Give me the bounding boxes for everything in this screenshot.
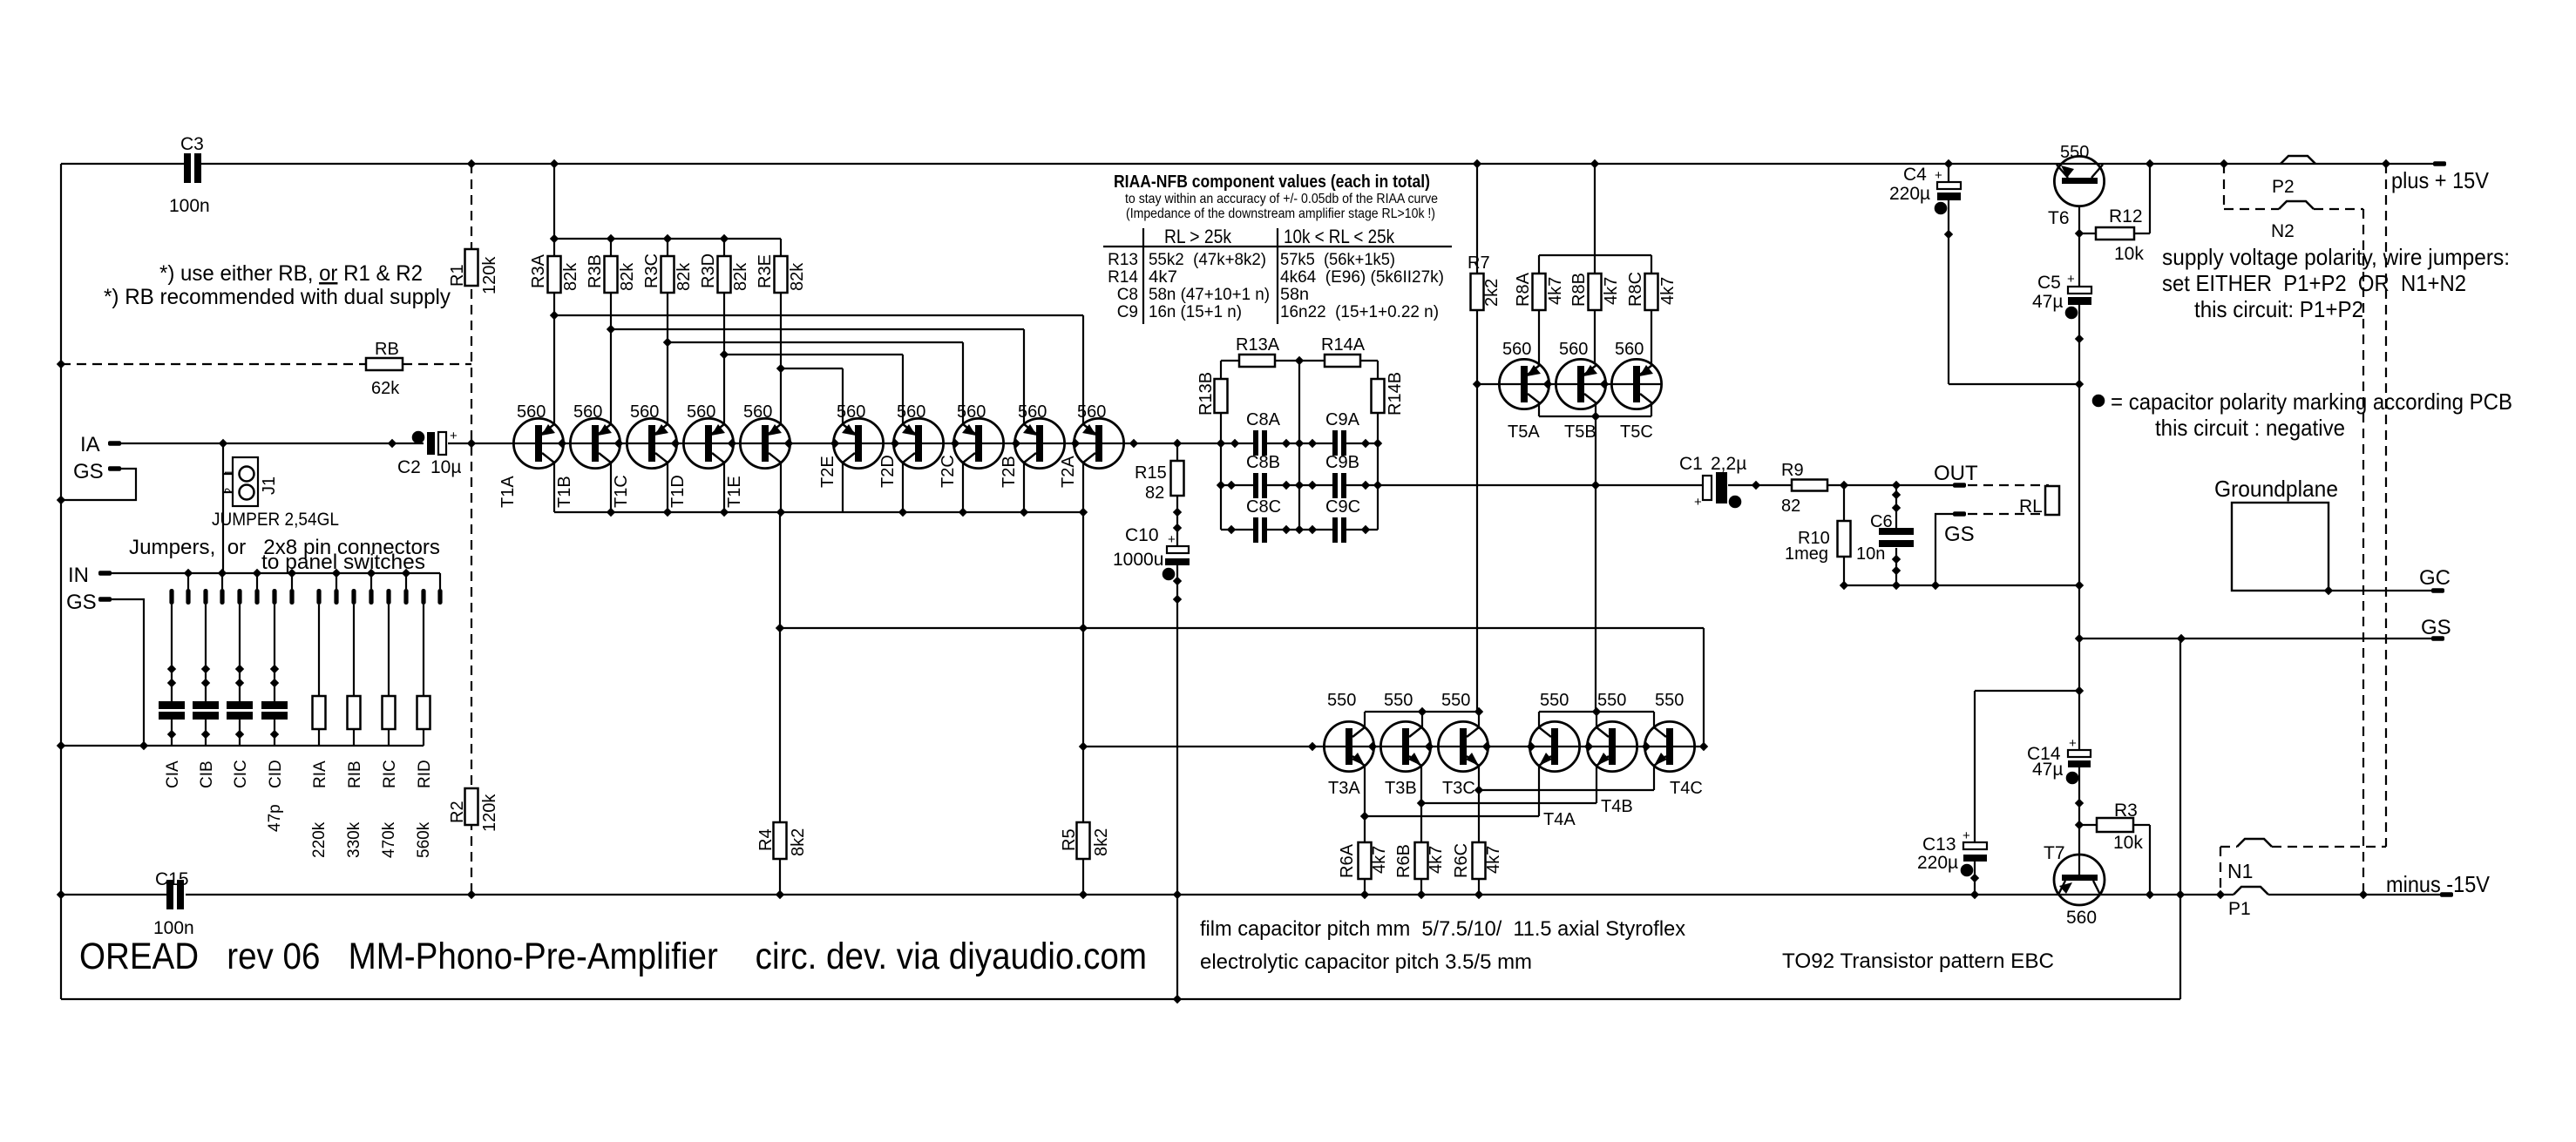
resistor R10 bbox=[1838, 521, 1851, 557]
svg-text:4k64 (E96) (5k6II27k): 4k64 (E96) (5k6II27k) bbox=[1280, 268, 1444, 287]
resistor R14A bbox=[1325, 355, 1360, 367]
svg-text:220µ: 220µ bbox=[1917, 853, 1958, 873]
svg-text:82k: 82k bbox=[618, 262, 637, 291]
svg-text:R7: R7 bbox=[1468, 253, 1490, 273]
transistor T5C bbox=[1611, 359, 1661, 409]
svg-text:T5B: T5B bbox=[1564, 422, 1596, 442]
transistor T3B bbox=[1380, 721, 1430, 771]
svg-text:R6B: R6B bbox=[1394, 844, 1413, 878]
resistor R3A bbox=[548, 256, 561, 293]
wire: T4 base bus bbox=[1539, 711, 1654, 713]
svg-text:T3C: T3C bbox=[1442, 779, 1475, 798]
svg-text:+: + bbox=[2069, 736, 2077, 751]
transistor T6 bbox=[2054, 156, 2104, 206]
capacitor C8C bbox=[1253, 517, 1258, 543]
wire: T4A emitter vertical bbox=[1538, 766, 1540, 816]
resistor RIB bbox=[348, 696, 361, 729]
wire: GS ground rail bbox=[2079, 638, 2431, 639]
svg-text:to stay within an accuracy of: to stay within an accuracy of +/- 0.05db… bbox=[1125, 192, 1438, 206]
transistor T3A bbox=[1324, 721, 1373, 771]
resistor R8A bbox=[1533, 274, 1546, 310]
capacitor C13 bbox=[1963, 842, 1987, 849]
svg-text:R9: R9 bbox=[1781, 461, 1804, 480]
resistor R5 bbox=[1077, 822, 1090, 859]
svg-text:*) RB recommended with dual su: *) RB recommended with dual supply bbox=[104, 285, 451, 309]
svg-text:+: + bbox=[1694, 495, 1702, 510]
svg-text:560: 560 bbox=[837, 402, 865, 422]
svg-text:T1D: T1D bbox=[668, 475, 688, 508]
resistor R12 bbox=[2096, 227, 2134, 240]
svg-text:C4: C4 bbox=[1903, 165, 1927, 185]
svg-text:R3B: R3B bbox=[586, 254, 605, 288]
wire: C8C-C9C row bbox=[1221, 529, 1253, 530]
svg-text:560: 560 bbox=[743, 402, 772, 422]
svg-text:R3: R3 bbox=[2114, 801, 2138, 821]
transistor T1C bbox=[627, 418, 676, 468]
svg-text:*) use either RB, or R1 & R2: *) use either RB, or R1 & R2 bbox=[159, 261, 423, 286]
groundplane bbox=[2232, 503, 2329, 591]
svg-text:electrolytic capacitor pitch 3: electrolytic capacitor pitch 3.5/5 mm bbox=[1200, 950, 1532, 974]
svg-text:82: 82 bbox=[1145, 483, 1164, 503]
capacitor CID bbox=[270, 665, 279, 673]
svg-text:R8B: R8B bbox=[1569, 273, 1589, 307]
resistor R9 bbox=[1792, 480, 1827, 491]
wire: IN bus bbox=[111, 572, 440, 574]
wire: RI resistors to bus bbox=[318, 729, 320, 746]
svg-text:R13A: R13A bbox=[1236, 335, 1280, 355]
svg-text:T2B: T2B bbox=[1000, 456, 1019, 488]
wire: coupling T1B-T2B bbox=[611, 328, 1024, 330]
svg-text:R2: R2 bbox=[448, 801, 467, 823]
svg-text:+: + bbox=[2067, 272, 2075, 287]
svg-text:R3D: R3D bbox=[699, 253, 718, 288]
wire: R13A-R14A row bbox=[1221, 360, 1239, 362]
wire: main signal line IA row bbox=[120, 443, 424, 444]
svg-text:55k2 (47k+8k2): 55k2 (47k+8k2) bbox=[1149, 251, 1266, 269]
transistor T2E bbox=[833, 418, 883, 468]
capacitor C4 bbox=[1937, 182, 1961, 189]
resistor R6C bbox=[1473, 842, 1486, 879]
svg-text:CIC: CIC bbox=[232, 760, 250, 788]
svg-text:N2: N2 bbox=[2271, 221, 2295, 241]
svg-text:IN: IN bbox=[68, 564, 89, 587]
svg-text:16n (15+1 n): 16n (15+1 n) bbox=[1149, 303, 1242, 321]
svg-text:1000u: 1000u bbox=[1113, 550, 1163, 570]
svg-text:RID: RID bbox=[416, 760, 434, 788]
wire: output row C8B-C9B to OUT bbox=[1221, 484, 1253, 486]
wire: dashed P2 alt drop bbox=[2223, 164, 2225, 209]
svg-text:10k: 10k bbox=[2114, 244, 2144, 264]
svg-text:47µ: 47µ bbox=[2032, 292, 2063, 312]
svg-text:8k2: 8k2 bbox=[1092, 828, 1111, 856]
wire: R9 to OUT segment junctions bbox=[1843, 485, 1845, 521]
svg-text:RIC: RIC bbox=[381, 760, 399, 788]
svg-text:R13: R13 bbox=[1108, 251, 1138, 269]
wire: pin stubs up bbox=[187, 573, 189, 589]
svg-text:550: 550 bbox=[1327, 691, 1356, 710]
wire: R3 bus bbox=[554, 238, 781, 240]
jumper P2 bbox=[2281, 156, 2315, 164]
svg-text:R3E: R3E bbox=[756, 254, 775, 288]
svg-text:58n: 58n bbox=[1280, 286, 1309, 304]
wire: left border bbox=[60, 164, 62, 999]
svg-text:560: 560 bbox=[957, 402, 986, 422]
table vline1 bbox=[1142, 228, 1144, 324]
svg-text:RL > 25k: RL > 25k bbox=[1164, 226, 1232, 247]
wire: T2A/R5 vertical bbox=[1082, 315, 1084, 822]
svg-text:4k7: 4k7 bbox=[1546, 277, 1565, 305]
svg-text:plus + 15V: plus + 15V bbox=[2391, 167, 2490, 193]
capacitor C5 bbox=[2068, 287, 2091, 294]
svg-text:120k: 120k bbox=[480, 256, 499, 294]
wire: R3C/T1C vertical bbox=[667, 239, 668, 256]
wire: R8C/T5C vertical bbox=[1651, 255, 1652, 274]
resistor RL bbox=[2045, 486, 2059, 515]
resistor R13B bbox=[1215, 379, 1228, 413]
svg-text:OUT: OUT bbox=[1934, 462, 1978, 485]
jumper N1 bbox=[2237, 839, 2272, 847]
wire: T1E collector run to T4C bbox=[780, 627, 1704, 629]
wire: RL dashed link top bbox=[1968, 484, 2049, 486]
svg-text:4k7: 4k7 bbox=[1658, 277, 1678, 305]
svg-text:R1: R1 bbox=[448, 264, 467, 287]
svg-text:47µ: 47µ bbox=[2032, 760, 2063, 780]
svg-text:2,2µ: 2,2µ bbox=[1711, 454, 1746, 474]
wire: coupling T1D-T2D bbox=[724, 354, 903, 355]
svg-text:minus -15V: minus -15V bbox=[2386, 871, 2491, 897]
svg-text:1meg: 1meg bbox=[1785, 544, 1828, 564]
table hline bbox=[1103, 246, 1452, 247]
svg-text:T4B: T4B bbox=[1601, 797, 1633, 816]
svg-text:Groundplane: Groundplane bbox=[2214, 476, 2338, 502]
connector pins row2 bbox=[316, 589, 321, 605]
wire: T3B emitter/R6B vertical bbox=[1420, 766, 1422, 842]
wire: T3/T4 base row bbox=[1083, 746, 1704, 747]
resistor R4 bbox=[774, 822, 787, 859]
svg-text:T2D: T2D bbox=[878, 455, 898, 488]
svg-text:550: 550 bbox=[1597, 691, 1626, 710]
capacitor C8B bbox=[1253, 473, 1258, 498]
svg-text:10n: 10n bbox=[1856, 544, 1885, 564]
transistor T4B bbox=[1587, 721, 1637, 771]
wire: T1/T2 collector bus bbox=[554, 511, 1083, 513]
resistor R6B bbox=[1415, 842, 1428, 879]
svg-text:P1: P1 bbox=[2228, 899, 2251, 919]
wire: RL dashed link bottom bbox=[1968, 513, 2045, 515]
wire: input ground bus bbox=[61, 745, 424, 747]
svg-text:OREAD rev 06 MM-Phono-Pre-: OREAD rev 06 MM-Phono-Pre-Amplifier circ… bbox=[79, 936, 1147, 977]
transistor T4A bbox=[1529, 721, 1579, 771]
svg-text:R6A: R6A bbox=[1338, 843, 1357, 878]
resistor R2 bbox=[465, 788, 478, 825]
svg-text:+: + bbox=[450, 429, 458, 443]
svg-text:4k7: 4k7 bbox=[1602, 277, 1621, 305]
capacitor C15 bbox=[166, 880, 173, 909]
wire: GS upper link bbox=[61, 469, 136, 500]
svg-text:R8C: R8C bbox=[1626, 272, 1645, 307]
transistor T2B bbox=[1014, 418, 1064, 468]
wire: T5B collector to output/T4 bases bbox=[1595, 416, 1596, 485]
svg-text:supply voltage polarity, wire: supply voltage polarity, wire jumpers: bbox=[2162, 244, 2510, 270]
resistor R13A bbox=[1239, 355, 1275, 367]
transistor T4C bbox=[1644, 721, 1694, 771]
capacitor CIA bbox=[167, 665, 176, 673]
transistor T5B bbox=[1556, 359, 1605, 409]
svg-text:C1: C1 bbox=[1679, 454, 1703, 474]
svg-text:T6: T6 bbox=[2048, 208, 2070, 228]
svg-text:C9C: C9C bbox=[1325, 497, 1360, 517]
svg-text:58n (47+10+1 n): 58n (47+10+1 n) bbox=[1149, 286, 1270, 304]
svg-text:57k5 (56k+1k5): 57k5 (56k+1k5) bbox=[1280, 251, 1395, 269]
capacitor C6 bbox=[1879, 528, 1914, 535]
wire: R3 link bbox=[2079, 824, 2097, 826]
svg-text:RIA: RIA bbox=[311, 760, 329, 788]
resistor R3 bbox=[2097, 818, 2133, 832]
svg-text:560: 560 bbox=[2066, 908, 2097, 928]
svg-text:550: 550 bbox=[1655, 691, 1684, 710]
svg-text:CIA: CIA bbox=[164, 760, 182, 788]
svg-text:560: 560 bbox=[1559, 340, 1588, 359]
svg-text:this circuit : negative: this circuit : negative bbox=[2155, 415, 2345, 441]
svg-text:R14: R14 bbox=[1108, 268, 1138, 287]
svg-text:T1C: T1C bbox=[612, 475, 631, 508]
wire: T4B emitter vertical bbox=[1596, 766, 1597, 803]
svg-text:this circuit: P1+P2: this circuit: P1+P2 bbox=[2194, 296, 2363, 322]
wire: R3A/T1A vertical bbox=[553, 164, 555, 256]
svg-text:RIB: RIB bbox=[346, 760, 364, 788]
wire: GC rail bbox=[2329, 590, 2432, 591]
wire: T3C-T4C link bbox=[1479, 789, 1654, 791]
svg-text:T1A: T1A bbox=[498, 476, 518, 508]
note polarity marking bbox=[2092, 395, 2105, 408]
svg-text:R3A: R3A bbox=[529, 253, 548, 288]
svg-text:+: + bbox=[1168, 532, 1176, 547]
transistor T3C bbox=[1438, 721, 1488, 771]
svg-text:T2A: T2A bbox=[1059, 456, 1078, 488]
svg-text:= capacitor polarity marking a: = capacitor polarity marking according P… bbox=[2111, 389, 2512, 415]
svg-text:C8A: C8A bbox=[1246, 410, 1281, 429]
resistor R3B bbox=[605, 256, 618, 293]
svg-text:120k: 120k bbox=[480, 794, 499, 832]
svg-text:560: 560 bbox=[573, 402, 602, 422]
svg-text:100n: 100n bbox=[169, 196, 210, 216]
svg-text:R3C: R3C bbox=[642, 253, 661, 288]
svg-text:T3A: T3A bbox=[1328, 779, 1360, 798]
capacitor CIC bbox=[235, 665, 244, 673]
svg-text:4k7: 4k7 bbox=[1149, 268, 1177, 287]
connector J1 bbox=[233, 457, 258, 506]
wire: network right vertical R14B bbox=[1377, 361, 1379, 379]
wire: GS lower link bbox=[111, 599, 144, 746]
svg-text:set EITHER P1+P2 OR N1+N2: set EITHER P1+P2 OR N1+N2 bbox=[2162, 270, 2466, 296]
resistor R1 bbox=[465, 249, 478, 286]
resistor RB bbox=[366, 358, 403, 370]
transistor T5A bbox=[1499, 359, 1549, 409]
resistor RIC bbox=[383, 696, 396, 729]
wire: right border bbox=[2179, 639, 2181, 999]
wire: coupling T1E-T2E bbox=[781, 368, 843, 369]
jumper N2 bbox=[2279, 201, 2314, 209]
svg-text:82k: 82k bbox=[561, 262, 580, 291]
transistor T2D bbox=[893, 418, 943, 468]
wire: dashed vertical N2-minus bbox=[2362, 209, 2364, 895]
resistor RIA bbox=[313, 696, 326, 729]
svg-text:GS: GS bbox=[73, 460, 104, 483]
wire: pin drops to RI resistors bbox=[318, 605, 320, 696]
svg-text:4k7: 4k7 bbox=[1370, 846, 1389, 874]
svg-text:10µ: 10µ bbox=[430, 457, 461, 477]
wire: +15V top rail bbox=[61, 163, 184, 165]
wire: CI caps to bus bbox=[171, 720, 173, 746]
table vline2 bbox=[1277, 228, 1278, 324]
svg-text:T7: T7 bbox=[2044, 843, 2065, 863]
svg-text:62k: 62k bbox=[371, 379, 400, 398]
svg-text:550: 550 bbox=[1540, 691, 1569, 710]
wire: T3B-T4B link bbox=[1421, 802, 1596, 804]
wire: R3D/T1D vertical bbox=[723, 239, 725, 256]
transistor T7 bbox=[2054, 855, 2105, 905]
svg-text:T3B: T3B bbox=[1385, 779, 1417, 798]
svg-text:N1: N1 bbox=[2227, 860, 2253, 882]
resistor R3E bbox=[775, 256, 788, 293]
svg-text:R4: R4 bbox=[756, 828, 776, 851]
capacitor C9C bbox=[1332, 517, 1338, 543]
svg-text:4k7: 4k7 bbox=[1484, 846, 1503, 874]
svg-text:J1: J1 bbox=[260, 476, 279, 495]
svg-text:560k: 560k bbox=[415, 821, 433, 858]
capacitor CIB bbox=[201, 665, 210, 673]
svg-text:+: + bbox=[1935, 168, 1942, 183]
svg-text:TO92 Transistor pattern EBC: TO92 Transistor pattern EBC bbox=[1782, 949, 2054, 973]
svg-text:560: 560 bbox=[630, 402, 659, 422]
svg-text:550: 550 bbox=[2060, 143, 2089, 162]
wire: network left vertical R13B bbox=[1220, 361, 1222, 379]
transistor T1D bbox=[683, 418, 733, 468]
svg-text:C13: C13 bbox=[1922, 835, 1956, 855]
svg-text:R14A: R14A bbox=[1321, 335, 1366, 355]
jumper P1 bbox=[2234, 887, 2268, 895]
svg-text:T1E: T1E bbox=[725, 476, 744, 508]
svg-text:220µ: 220µ bbox=[1889, 184, 1930, 204]
wire: R3E/T1E/R4 vertical bbox=[780, 239, 782, 256]
svg-text:RB: RB bbox=[375, 340, 399, 359]
capacitor C9A bbox=[1332, 430, 1338, 456]
svg-text:82k: 82k bbox=[675, 262, 694, 291]
wire: R7/T3-base vertical bbox=[1476, 164, 1478, 274]
wire: T3A emitter/R6A vertical bbox=[1364, 766, 1366, 842]
svg-text:82k: 82k bbox=[731, 262, 750, 291]
svg-text:550: 550 bbox=[1384, 691, 1413, 710]
wire: J1 vertical bbox=[222, 443, 224, 573]
svg-text:C9: C9 bbox=[1117, 303, 1138, 321]
wire: T5 collector bus bbox=[1539, 416, 1651, 417]
wire: OUT-gnd return bbox=[1844, 585, 2079, 586]
wire: GS output stub bbox=[1935, 514, 1953, 585]
wire: -15V bottom rail bbox=[61, 894, 166, 895]
capacitor C1 bbox=[1703, 476, 1712, 500]
wire: network middle vertical bbox=[1298, 361, 1300, 530]
svg-text:T5C: T5C bbox=[1620, 422, 1653, 442]
resistor R6A bbox=[1359, 842, 1372, 879]
transistor T1A bbox=[513, 418, 563, 468]
svg-text:C9B: C9B bbox=[1325, 453, 1359, 472]
wire: dashed R1-R2 line bbox=[471, 164, 472, 249]
svg-text:560: 560 bbox=[897, 402, 925, 422]
svg-text:C8C: C8C bbox=[1246, 497, 1281, 517]
junction dots bbox=[467, 159, 476, 168]
resistor R3C bbox=[661, 256, 675, 293]
svg-text:C8: C8 bbox=[1117, 286, 1138, 304]
svg-text:560: 560 bbox=[517, 402, 546, 422]
svg-text:R6C: R6C bbox=[1452, 843, 1471, 878]
wire: dashed N1 drop to minus bbox=[2220, 847, 2221, 895]
wire: dashed RB line bbox=[61, 363, 366, 365]
capacitor C3 bbox=[184, 153, 191, 183]
wire: T3A-T4A link bbox=[1365, 815, 1539, 817]
svg-text:R5: R5 bbox=[1060, 828, 1079, 851]
capacitor C14 bbox=[2068, 750, 2091, 757]
svg-text:to panel switches: to panel switches bbox=[261, 551, 425, 574]
wire: T2E vertical bbox=[842, 368, 844, 512]
svg-text:CIB: CIB bbox=[198, 760, 216, 788]
svg-text:GS: GS bbox=[2421, 616, 2451, 639]
svg-text:C2: C2 bbox=[397, 457, 421, 477]
svg-text:R14B: R14B bbox=[1386, 372, 1405, 416]
capacitor C2 bbox=[412, 431, 425, 444]
svg-text:T2E: T2E bbox=[818, 456, 837, 488]
wire: bottom border bbox=[61, 998, 2180, 1000]
transistor T1B bbox=[570, 418, 620, 468]
svg-text:C10: C10 bbox=[1125, 525, 1159, 545]
svg-text:R8A: R8A bbox=[1514, 272, 1533, 307]
svg-text:560: 560 bbox=[687, 402, 715, 422]
svg-text:560: 560 bbox=[1018, 402, 1047, 422]
capacitor C9B bbox=[1332, 473, 1338, 498]
wire: pin drops to CI caps bbox=[171, 605, 173, 701]
connector pins row1 bbox=[169, 589, 173, 605]
svg-text:RIAA-NFB component values (eac: RIAA-NFB component values (each in total… bbox=[1114, 172, 1430, 192]
svg-text:T2C: T2C bbox=[939, 455, 958, 488]
svg-text:CID: CID bbox=[267, 760, 285, 788]
svg-text:4k7: 4k7 bbox=[1427, 846, 1446, 874]
resistor R7 bbox=[1471, 274, 1484, 310]
wire: dashed vertical plus-N1 bbox=[2385, 164, 2387, 847]
capacitor C10 bbox=[1167, 546, 1189, 553]
svg-text:1: 1 bbox=[222, 470, 235, 476]
svg-text:film capacitor pitch mm 5/7.5: film capacitor pitch mm 5/7.5/10/ 11.5 a… bbox=[1200, 917, 1685, 941]
wire: coupling T1A-T2A bbox=[554, 314, 1083, 316]
svg-text:GC: GC bbox=[2419, 566, 2451, 590]
svg-text:560: 560 bbox=[1615, 340, 1644, 359]
wire: R8 top bus bbox=[1539, 254, 1651, 256]
svg-text:47p: 47p bbox=[266, 804, 284, 832]
wire: T6/C5/C14/T7 main vertical bbox=[2078, 184, 2080, 287]
wire: R15/C10 vertical bbox=[1176, 443, 1178, 461]
wire: T5 base row bbox=[1477, 383, 1661, 385]
wire: dashed N1 row bbox=[2220, 846, 2237, 848]
svg-text:330k: 330k bbox=[345, 821, 363, 858]
wire: T2D vertical bbox=[902, 355, 904, 512]
wire: C6 vertical bbox=[1895, 485, 1897, 528]
wire: T3 base bus bbox=[1365, 711, 1479, 713]
wire: dashed N2 row bbox=[2224, 208, 2279, 210]
svg-text:IA: IA bbox=[80, 433, 100, 456]
transistor T2C bbox=[953, 418, 1003, 468]
transistor T2A bbox=[1074, 418, 1123, 468]
wire: T4C emitter vertical bbox=[1653, 766, 1655, 790]
svg-text:560: 560 bbox=[1077, 402, 1106, 422]
svg-text:R12: R12 bbox=[2109, 206, 2143, 226]
